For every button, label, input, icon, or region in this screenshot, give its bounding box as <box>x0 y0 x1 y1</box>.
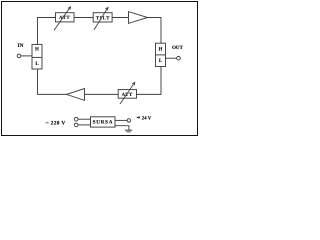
svg-text:TILT: TILT <box>96 15 110 21</box>
terminal 24V <box>127 119 130 122</box>
terminal mains upper <box>74 117 78 121</box>
wire amp A2 to left diplexer bottom <box>38 69 67 94</box>
equalizer TILT <box>93 7 112 30</box>
wire ATT1 to TILT <box>74 17 93 19</box>
wire amp A1 to right diplexer <box>148 18 162 44</box>
diplexer right H/L <box>156 43 166 66</box>
wire right diplexer to OUT <box>166 57 177 59</box>
wire ATT2 to amp A2 <box>85 93 119 95</box>
ground <box>125 130 132 132</box>
terminal OUT <box>177 56 181 60</box>
wire IN to diplexer <box>21 55 32 57</box>
diplexer left H/L <box>32 44 42 69</box>
wire SURSA to ground <box>115 126 129 130</box>
wire mains upper <box>78 118 91 120</box>
svg-text:SURSA: SURSA <box>93 120 114 126</box>
svg-text:H: H <box>159 46 163 52</box>
amplifier A1 <box>129 12 148 24</box>
svg-text:OUT: OUT <box>172 45 184 51</box>
attenuator ATT2 <box>118 82 136 104</box>
wire left diplexer top to ATT1 <box>38 18 56 45</box>
wire SURSA to 24V terminal <box>115 119 127 121</box>
wire TILT to amp A1 <box>112 17 128 19</box>
svg-text:~ 220 V: ~ 220 V <box>46 121 66 127</box>
power supply SURSA <box>91 117 116 127</box>
svg-text:IN: IN <box>18 43 24 49</box>
svg-text:24 V: 24 V <box>142 116 152 122</box>
wire right diplexer bottom to ATT2 <box>137 67 162 95</box>
terminal mains lower <box>74 123 78 127</box>
amplifier A2 (return) <box>67 89 85 101</box>
wire mains lower <box>78 124 91 126</box>
attenuator ATT1 <box>54 7 74 31</box>
label 24V with arrow <box>136 116 152 122</box>
terminal IN <box>17 54 21 58</box>
svg-text:H: H <box>35 47 39 53</box>
